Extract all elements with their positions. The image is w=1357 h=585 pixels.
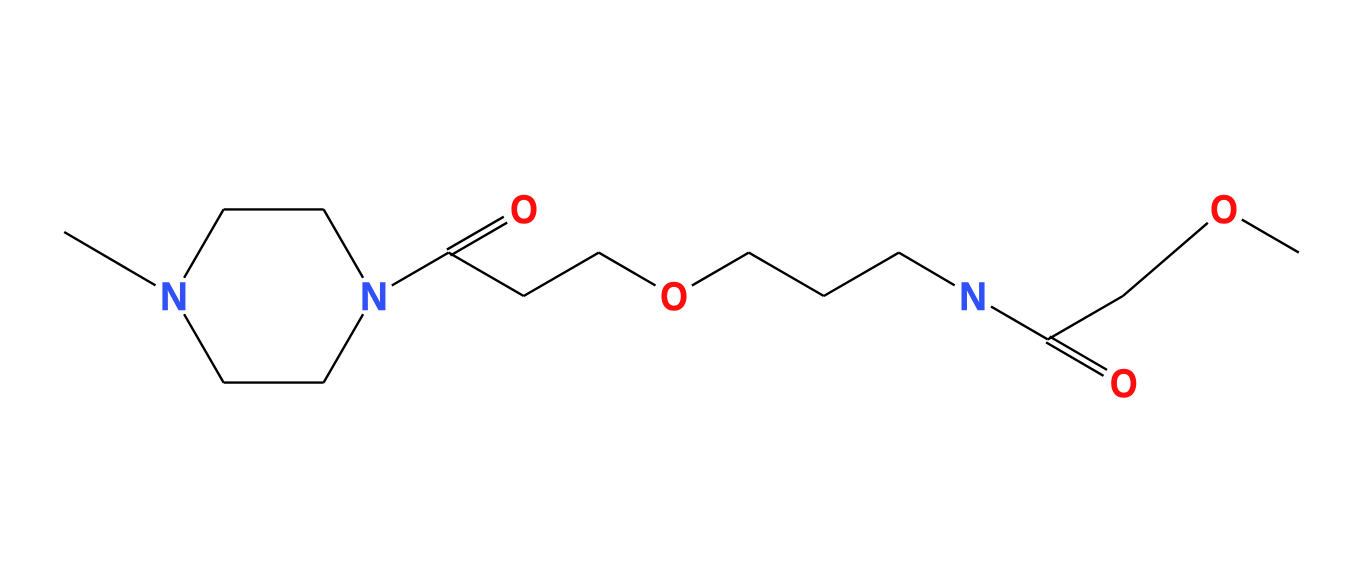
- svg-text:O: O: [1210, 188, 1238, 233]
- bond CH2-CH2: [749, 253, 824, 296]
- svg-text:O: O: [510, 188, 538, 233]
- double bond C=O (methoxyacetyl carbonyl): [1046, 337, 1107, 376]
- bond CH2-CH2: [524, 253, 599, 296]
- bond CH2-O (methoxy): [1123, 223, 1208, 296]
- bond CH2-O (ether): [599, 253, 656, 286]
- bond C5a-N2 (piperazine ring): [324, 314, 364, 382]
- bond N1-C2a (piperazine ring): [184, 209, 224, 277]
- svg-text:O: O: [1110, 362, 1138, 407]
- bond N2-C(=O) amide: [392, 253, 449, 286]
- bond CH2-N (amide N): [899, 253, 955, 286]
- bond C6a-C5a (piperazine ring bottom edge): [224, 381, 324, 383]
- svg-text:N: N: [360, 275, 388, 319]
- bond O-CH3 (methoxy methyl): [1242, 220, 1299, 253]
- svg-text:N: N: [160, 275, 188, 319]
- bond CH3-N1 (N-methyl): [64, 232, 155, 285]
- bond C3a-N2 (piperazine ring): [324, 209, 364, 277]
- svg-text:O: O: [660, 275, 688, 320]
- bond CH2-CH2: [824, 253, 899, 296]
- bond C(=O)-CH2: [449, 253, 524, 296]
- double bond C=O (amide carbonyl): [447, 217, 507, 256]
- bond O-CH2 (ether): [692, 253, 749, 286]
- bond C2a-C3a (piperazine ring top edge): [224, 208, 324, 210]
- svg-text:N: N: [959, 275, 987, 319]
- bond N1-C6a (piperazine ring): [184, 314, 224, 382]
- bond N-C(=O) amide: [991, 307, 1048, 340]
- bond C(=O)-CH2: [1048, 296, 1123, 339]
